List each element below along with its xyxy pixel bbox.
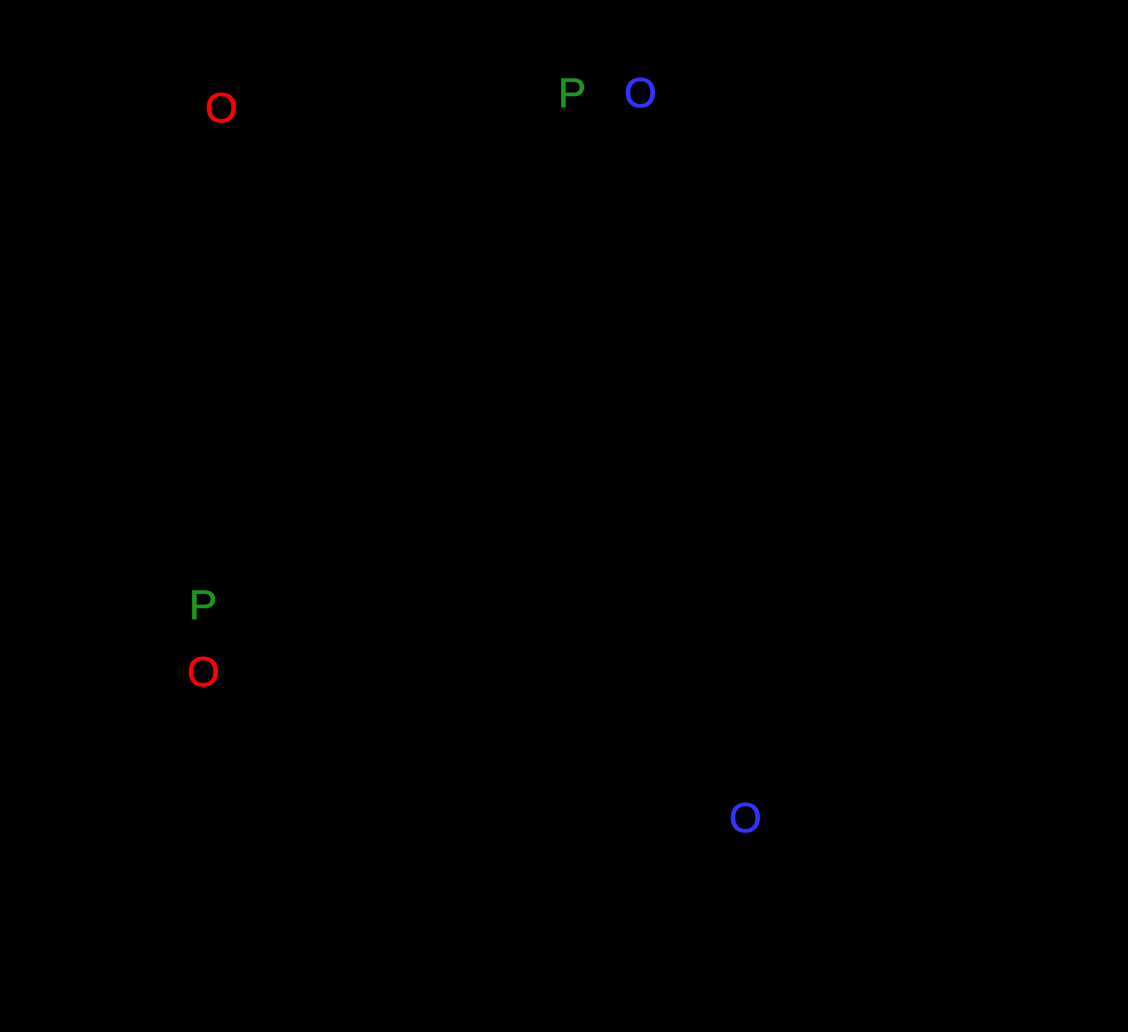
atom O4 methoxy oxygen (blue), bottom-right [729,797,762,839]
atom P1 phosphorus (green), top-center [558,72,586,114]
atom O2 phosphoryl oxygen (blue), right of P1 [624,72,657,114]
atom O3 phosphoryl oxygen (red), below P2 [187,651,220,693]
atom O1 methoxy oxygen (red), top-left [205,87,238,129]
atom P2 phosphorus (green), mid-left [189,584,217,626]
